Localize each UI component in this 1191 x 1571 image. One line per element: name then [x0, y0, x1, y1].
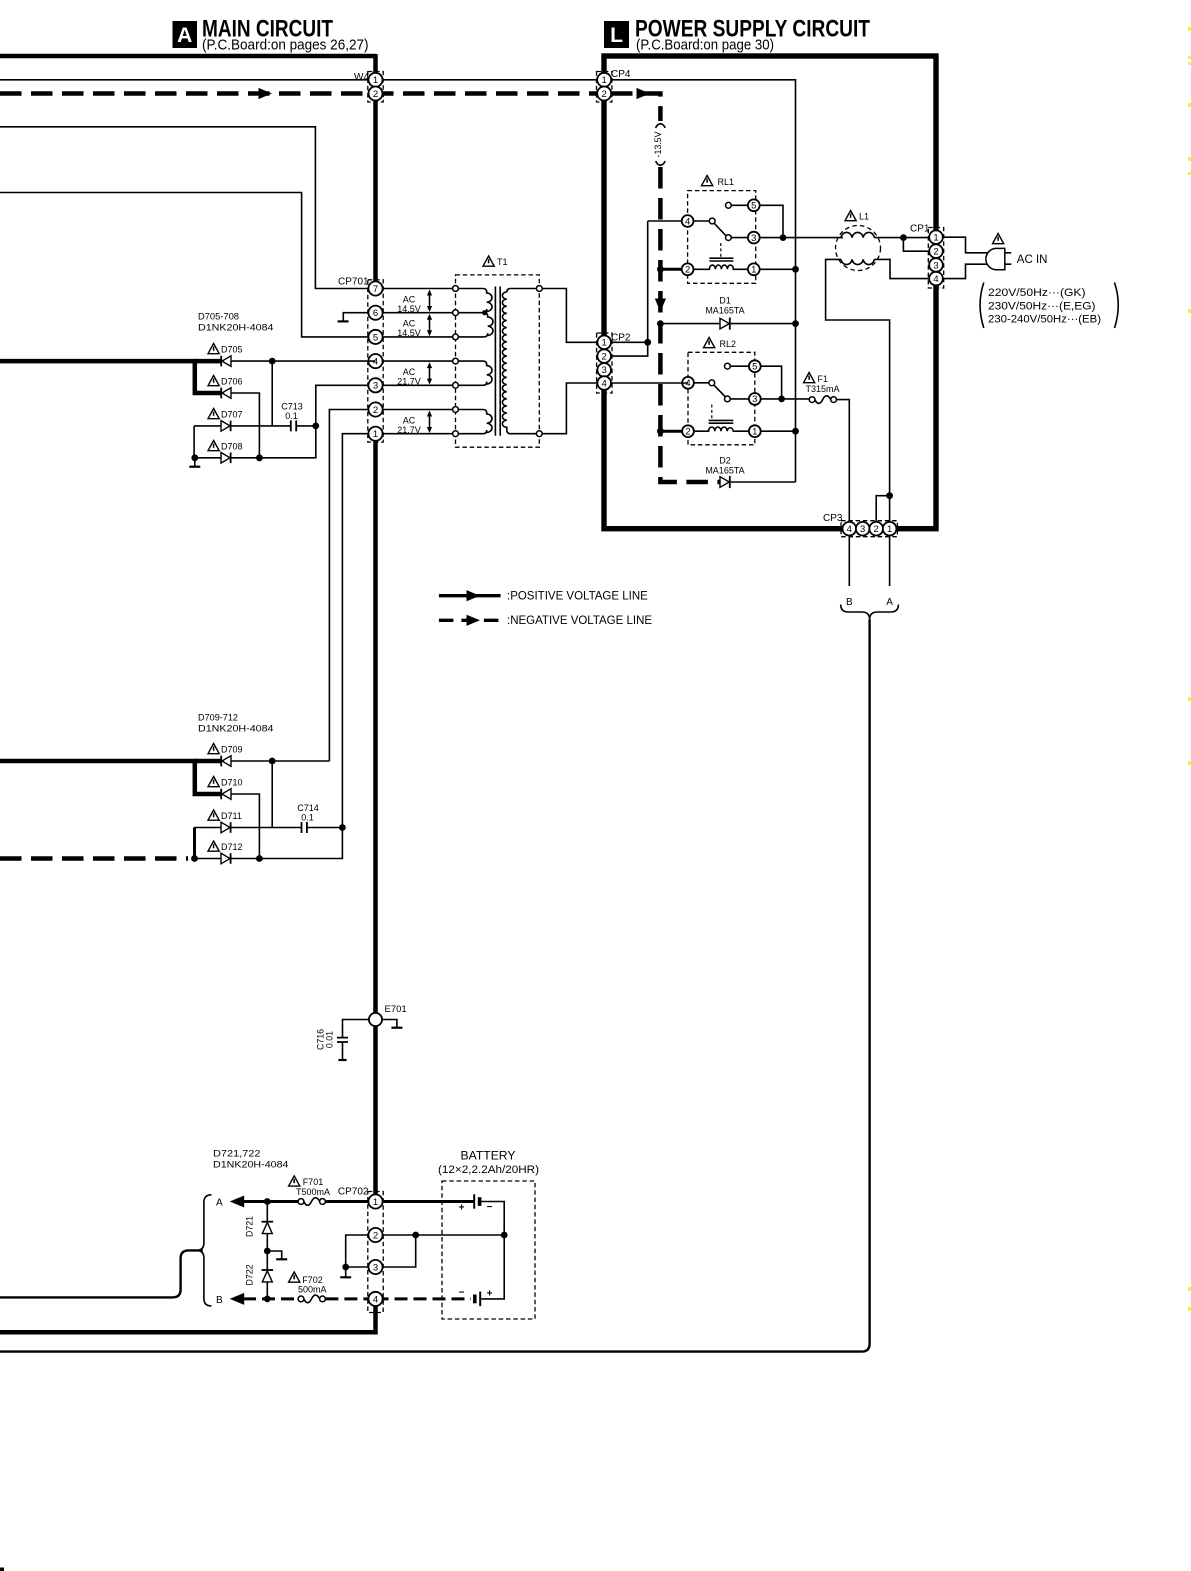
break chevron bottom of -13.5V gap — [656, 161, 665, 165]
wire thick feed D709/D710 — [0, 761, 221, 794]
connector RL2 pin 1 — [749, 425, 761, 437]
fuse F1 symbol — [809, 396, 836, 404]
svg-text:AC IN: AC IN — [1017, 254, 1048, 266]
contact circle RL2 common — [709, 380, 715, 386]
svg-text:2: 2 — [602, 351, 607, 362]
connector W4 pin 2 — [369, 87, 383, 101]
wire D711 row right to C714 — [231, 827, 302, 829]
svg-text:CP3: CP3 — [823, 513, 843, 524]
wire CP701-7 feed from left — [0, 127, 376, 289]
svg-text:RL2: RL2 — [720, 339, 737, 349]
svg-text:D1NK20H-4084: D1NK20H-4084 — [198, 724, 274, 735]
warning triangle T1 — [483, 256, 494, 266]
svg-text:1: 1 — [602, 75, 607, 86]
wire C714 right to node — [307, 827, 343, 829]
contact circle RL1 moving — [726, 235, 732, 241]
warning triangle D712 — [208, 841, 219, 851]
svg-text:T1: T1 — [497, 257, 508, 267]
wire RL2 pin4 to contact — [688, 382, 712, 384]
wire D707 row right to C713 — [231, 425, 291, 427]
svg-text:0.1: 0.1 — [301, 813, 314, 823]
underbrace A/B — [841, 605, 899, 620]
wire A node jog to CP3-2 — [876, 496, 889, 522]
relay RL1 coil — [688, 265, 754, 269]
svg-text:2: 2 — [874, 524, 879, 535]
svg-text:D708: D708 — [221, 442, 243, 452]
relay RL1 core bars — [709, 257, 733, 259]
ground at CP702 pin3 — [345, 1267, 347, 1277]
diode D710 — [221, 789, 231, 800]
wire D712 row left stub — [195, 858, 222, 860]
wire: thick bus vertical upper — [373, 54, 378, 281]
warning triangle D706 — [208, 376, 219, 386]
svg-text:−: − — [459, 1288, 465, 1299]
junction dot CP2 node — [644, 339, 651, 346]
wire D710 row — [231, 794, 260, 859]
junction dot D1 left — [657, 320, 664, 327]
junction dot D709 row — [269, 758, 276, 765]
wire RL1 pin4 to contact — [688, 220, 713, 222]
ground at D721/D722 mid — [267, 1251, 281, 1259]
svg-text:2: 2 — [685, 427, 690, 438]
wire L1 top right to CP1-1 — [874, 237, 929, 239]
legend negative arrow — [467, 615, 481, 626]
junction dot D1 right — [792, 320, 799, 327]
diode D706 — [221, 388, 231, 399]
svg-text:D2: D2 — [719, 456, 731, 466]
wire D711 row left — [194, 827, 221, 829]
connector CP701 pin 3 — [368, 378, 382, 392]
arrow gap3 — [427, 362, 432, 385]
ground bar at CP701-6 — [338, 320, 349, 322]
actuator dashed RL1 — [720, 243, 722, 257]
voltage note parens — [980, 283, 984, 329]
battery top cell plates — [474, 1194, 479, 1208]
svg-text:1: 1 — [751, 265, 756, 276]
wire: thick positive bus top — [0, 54, 376, 59]
wire D1 row — [660, 323, 795, 325]
warning triangle F702 — [289, 1272, 300, 1282]
svg-text:2: 2 — [933, 247, 938, 258]
ground bar E701 — [391, 1027, 402, 1029]
svg-text:T315mA: T315mA — [806, 384, 840, 394]
AC plug body — [986, 248, 1005, 269]
svg-text:D721,722: D721,722 — [213, 1149, 261, 1160]
diode D711 — [221, 822, 231, 833]
ground symbol D707/708 — [194, 458, 196, 467]
svg-text:D710: D710 — [221, 778, 243, 788]
svg-text:2: 2 — [602, 89, 607, 100]
svg-text:220V/50Hz···(GK): 220V/50Hz···(GK) — [988, 287, 1086, 299]
svg-text:2: 2 — [685, 265, 690, 276]
svg-text:(P.C.Board:on pages 26,27): (P.C.Board:on pages 26,27) — [202, 36, 369, 53]
svg-text:1: 1 — [602, 338, 607, 349]
L1 dashed circle — [836, 226, 881, 271]
wire: thick bus vertical middle — [373, 441, 378, 1013]
svg-text:D709-712: D709-712 — [198, 713, 238, 724]
T1 dashed box — [456, 275, 540, 447]
junction dot A row — [264, 1198, 271, 1205]
wire thick feed D705/D706 — [0, 361, 221, 393]
svg-text:AC: AC — [403, 416, 416, 426]
svg-text:A: A — [886, 597, 893, 608]
junction dot CP1 jumper — [900, 234, 907, 241]
svg-text:−: − — [487, 1202, 493, 1213]
warning triangle L1 — [845, 211, 856, 221]
wire D711 left down to negative node — [193, 828, 196, 858]
connector RL1 pin 1 — [748, 263, 760, 275]
legend positive arrow — [467, 590, 481, 601]
connector CP1 pin 2 — [929, 244, 943, 258]
warning triangle D707 — [208, 409, 219, 419]
warning triangle D711 — [208, 810, 219, 820]
svg-text:AC: AC — [403, 319, 416, 329]
svg-text:MA165TA: MA165TA — [705, 306, 744, 316]
diode D1 — [720, 318, 730, 330]
wire battery top to mid node — [481, 1202, 504, 1236]
connector CP2 pin 4 — [597, 376, 611, 390]
battery bottom cell plates — [475, 1292, 480, 1307]
wire CP702-2 row — [376, 1234, 505, 1236]
junction dot RL1 pin2 — [657, 266, 664, 273]
svg-text:5: 5 — [373, 332, 378, 343]
connector CP1 pin 4 — [929, 272, 943, 286]
wire C713 node down to D708 row — [231, 426, 316, 458]
svg-text:+: + — [459, 1203, 465, 1214]
legend negative line — [439, 619, 501, 622]
wire D722 vertical — [266, 1251, 268, 1299]
T1 terminal 3 — [453, 382, 459, 388]
wire CP701-5 feed from left — [0, 193, 376, 337]
arrow gap1 — [427, 290, 432, 313]
connector W4 pin 1 — [369, 73, 383, 87]
wire D707 row left — [194, 425, 221, 427]
wire: thick dashed negative line to CP4-2 — [0, 91, 604, 96]
svg-text:L1: L1 — [859, 212, 869, 222]
svg-text:230V/50Hz···(E,EG): 230V/50Hz···(E,EG) — [988, 300, 1096, 312]
L1 bottom winding — [841, 259, 874, 264]
svg-text:W4: W4 — [354, 72, 369, 83]
wire RL2 pin3 to fuse F1 — [755, 398, 809, 400]
junction dot D705 row — [269, 358, 276, 365]
diode D705 — [221, 356, 231, 367]
diode D708 — [221, 453, 231, 464]
brace line from left edge — [0, 1250, 203, 1297]
T1 tap dot — [482, 310, 487, 315]
wire thick dashed negative feed D711/712 — [0, 856, 188, 861]
connector RL1 pin 5 — [748, 199, 760, 211]
wire jumper down to CP1-2 — [903, 238, 929, 252]
svg-text:+: + — [487, 1289, 493, 1300]
svg-text:1: 1 — [373, 429, 378, 440]
wire F702 to CP702-4 dashed — [325, 1297, 375, 1300]
svg-text:D705: D705 — [221, 345, 243, 355]
connector CP701 pin 7 — [368, 281, 382, 295]
svg-text:D1: D1 — [719, 296, 731, 306]
wire CP701-2 down feed — [329, 410, 375, 762]
capacitor C716 — [337, 1038, 348, 1042]
svg-text:3: 3 — [860, 524, 865, 535]
connector CP4 pin 1 — [597, 73, 611, 87]
wire D721 vertical — [266, 1202, 268, 1252]
wire A row thick to F701 — [243, 1200, 298, 1203]
connector CP701 pin 4 — [368, 354, 382, 368]
T1 core — [495, 287, 500, 436]
contact circle RL1 common — [709, 218, 715, 224]
svg-text:L: L — [610, 24, 623, 47]
wire RL1 contact to pin3 — [728, 237, 753, 239]
svg-text:D709: D709 — [221, 745, 243, 755]
junction dot CP702 ground node — [342, 1264, 349, 1271]
svg-text:4: 4 — [373, 1294, 378, 1305]
yellow edge ticks — [1188, 27, 1191, 1311]
svg-text:0.1: 0.1 — [285, 411, 298, 421]
brace A/B fanout — [196, 1195, 211, 1306]
arrow gap4 — [427, 411, 432, 434]
connector CP701 dashed box — [368, 280, 383, 442]
warning triangle F701 — [289, 1176, 300, 1186]
wire: CP4-1 line right and down x=796 — [611, 80, 796, 482]
warning triangle AC — [993, 234, 1004, 244]
legend positive line — [439, 594, 501, 597]
capacitor C713 — [291, 420, 296, 431]
wire: thick dashed from CP4-2 to corner — [611, 94, 660, 122]
svg-text:1: 1 — [887, 524, 892, 535]
wire C714 node down to D712 row — [231, 828, 343, 859]
svg-text:230-240V/50Hz···(EB): 230-240V/50Hz···(EB) — [988, 314, 1101, 326]
contact circle RL2 upper — [725, 363, 731, 369]
svg-text:-13.5V: -13.5V — [653, 131, 663, 157]
svg-text:0.01: 0.01 — [325, 1031, 335, 1048]
svg-text:3: 3 — [373, 1262, 378, 1273]
svg-text:CP2: CP2 — [611, 333, 631, 344]
T1 secondary winding — [502, 289, 539, 434]
junction dot C713 node — [312, 423, 319, 430]
junction dot D712 row — [256, 855, 263, 862]
junction dot RL2 pin2 — [657, 428, 664, 435]
actuator dashed RL2 — [711, 405, 713, 419]
wire C716 bottom stub — [342, 1042, 344, 1060]
wire battery mid down to bottom cell — [481, 1235, 504, 1299]
wire CP702-4 to battery - dashed — [376, 1297, 472, 1300]
svg-text:3: 3 — [373, 381, 378, 392]
svg-text:F1: F1 — [818, 374, 829, 384]
badge L — [604, 21, 629, 48]
wire: A/B bundle bottom line — [0, 620, 870, 1352]
wire D707 left down to ground node — [193, 426, 195, 458]
T1 primary winding 2 — [456, 361, 492, 385]
connector CP3 dashed box — [841, 521, 897, 537]
diode D709 — [221, 756, 231, 767]
warning triangle F1 — [804, 373, 815, 383]
svg-text:3: 3 — [602, 365, 607, 376]
connector CP1 pin 3 — [929, 258, 943, 272]
wire CP1-4 to plug — [943, 264, 988, 278]
connector CP702 dashed box — [368, 1192, 383, 1313]
wire D709-row down to C714 — [271, 761, 273, 828]
svg-text:D722: D722 — [245, 1264, 255, 1285]
connector RL1 pin 4 — [682, 215, 694, 227]
wire RL1 pin3 to L1 — [754, 237, 843, 239]
svg-text:4: 4 — [933, 274, 938, 285]
L1 top winding — [841, 232, 874, 237]
wire B row dashed to F702 — [243, 1297, 298, 1300]
svg-text:C713: C713 — [281, 402, 303, 412]
wire T1 secondary top to CP2-1 — [542, 289, 597, 343]
warning triangle RL1 — [702, 176, 713, 186]
svg-text:B: B — [846, 597, 853, 608]
connector CP702 pin 4 — [368, 1292, 382, 1306]
svg-text:3: 3 — [751, 233, 756, 244]
wire RL2 pin5 to contact — [727, 365, 754, 367]
T1 secondary terminal bottom — [536, 431, 542, 437]
contact circle RL2 moving — [725, 396, 731, 402]
junction dot battery mid — [501, 1232, 508, 1239]
junction dot RL2 pin5/pin3 — [778, 396, 785, 403]
wire: thick dashed vertical -13.5V line — [660, 167, 720, 482]
svg-text:14.5V: 14.5V — [397, 328, 421, 338]
arrow down on -13.5V line — [655, 299, 666, 313]
connector CP3 pin 3 — [856, 522, 870, 536]
wire L1 bottom left down around to A node — [826, 259, 890, 495]
wire CP2-2 jog — [604, 342, 648, 356]
wire CP2-4 to RL2-4 — [604, 382, 688, 384]
warning triangle D705 — [208, 344, 219, 354]
wire CP701-6 ground — [343, 313, 375, 322]
svg-text:(12×2,2.2Ah/20HR): (12×2,2.2Ah/20HR) — [438, 1164, 539, 1176]
wire RL2 pin1 to vertical 795.5 — [755, 430, 796, 432]
diode D707 — [221, 421, 231, 432]
relay RL2 core bars — [709, 419, 734, 421]
svg-text:F702: F702 — [302, 1275, 323, 1285]
wire RL1 pin5 right down to pin3 wire — [754, 205, 783, 237]
svg-text:2: 2 — [373, 89, 378, 100]
svg-text:F701: F701 — [303, 1177, 324, 1187]
svg-text:D705-708: D705-708 — [198, 312, 239, 323]
junction dot B row — [264, 1296, 271, 1303]
warning triangle D709 — [208, 744, 219, 754]
wire CP701-1 down feed — [342, 434, 375, 828]
wire RL1 pin1 to vertical 795.5 — [754, 268, 796, 270]
wires CP701 to T1 terminals — [376, 289, 453, 434]
wire E701 right to ground — [376, 1020, 397, 1028]
svg-text:4: 4 — [373, 357, 378, 368]
wire T1 secondary bottom to CP2-4 — [542, 383, 597, 434]
arrow B left — [230, 1293, 245, 1305]
svg-text:21.7V: 21.7V — [397, 377, 421, 387]
svg-text:RL1: RL1 — [718, 177, 735, 187]
svg-text:CP701: CP701 — [338, 277, 369, 288]
svg-text:E701: E701 — [385, 1004, 407, 1015]
T1 terminal 7 — [453, 286, 459, 292]
corner mark bottom left — [0, 1568, 4, 1571]
connector RL2 pin 2 — [682, 425, 694, 437]
diode D721 — [262, 1222, 274, 1234]
junction dot negative node — [191, 855, 198, 862]
relay RL2 coil — [688, 427, 755, 431]
wire RL1 pin4 from CP2 node — [648, 220, 688, 222]
connector CP701 pin 5 — [368, 330, 382, 344]
junction dot RL1 pin5/pin3 — [780, 234, 787, 241]
wire D708 row left to ground — [195, 457, 221, 459]
connector CP701 pin 1 — [368, 427, 382, 441]
wire RL2 pin2 stub to -13.5V — [659, 430, 688, 433]
wire D2 thin right segment — [731, 481, 796, 483]
wire L1 bottom right to CP1-4 — [874, 259, 929, 278]
svg-text:5: 5 — [751, 201, 756, 212]
C716 end bar — [338, 1059, 346, 1061]
junction dot RL2 pin1 — [792, 428, 799, 435]
svg-text:(P.C.Board:on page 30): (P.C.Board:on page 30) — [636, 36, 774, 53]
T1 terminal 4 — [453, 358, 459, 364]
battery dashed box — [442, 1181, 535, 1319]
badge A — [173, 21, 198, 48]
diode D722 — [262, 1270, 274, 1282]
wire CP701-3 from C713 node — [316, 385, 376, 426]
wire E701 left to C716 — [343, 1020, 376, 1038]
svg-text:AC: AC — [403, 295, 416, 305]
junction dot ground node — [191, 454, 198, 461]
wire CP3-4 down B — [848, 536, 850, 587]
contact circle RL1 upper — [726, 202, 732, 208]
connector CP1 pin 1 — [929, 230, 943, 244]
connector CP2 pin 1 — [597, 336, 611, 350]
junction dot RL1 pin1 — [792, 266, 799, 273]
arrow on negative line — [259, 88, 273, 99]
T1 terminal 5 — [453, 334, 459, 340]
wire D705-row down to C713 — [271, 361, 273, 426]
AC plug prongs — [1005, 253, 1012, 264]
wire F701 to CP702-1 thick — [325, 1200, 375, 1203]
svg-text:B: B — [216, 1295, 223, 1306]
connector CP4 dashed box — [597, 72, 612, 103]
svg-text:C714: C714 — [297, 803, 319, 813]
wire RL2 contact to pin3 — [727, 398, 754, 400]
svg-text:1: 1 — [752, 427, 757, 438]
svg-text::NEGATIVE VOLTAGE LINE: :NEGATIVE VOLTAGE LINE — [507, 615, 652, 627]
svg-text:A: A — [177, 24, 192, 47]
arrow gap2 — [427, 314, 432, 337]
svg-text:MA165TA: MA165TA — [705, 466, 744, 476]
connector RL1 pin 3 — [748, 232, 760, 244]
connector W4 dashed box — [368, 72, 383, 103]
svg-text:4: 4 — [602, 378, 607, 389]
T1 primary winding 1 — [456, 289, 493, 337]
svg-text:2: 2 — [373, 405, 378, 416]
svg-text:D711: D711 — [221, 811, 242, 821]
svg-text:AC: AC — [403, 367, 416, 377]
power supply circuit border — [604, 56, 936, 529]
relay RL2 dashed box — [688, 352, 755, 445]
svg-text:BATTERY: BATTERY — [461, 1151, 516, 1163]
svg-text:4: 4 — [847, 524, 852, 535]
junction dot A node — [886, 492, 893, 499]
svg-text:1: 1 — [933, 233, 938, 244]
wire D709 row — [231, 760, 330, 762]
svg-text:14.5V: 14.5V — [397, 304, 421, 314]
svg-text:D706: D706 — [221, 377, 243, 387]
svg-text:D707: D707 — [221, 410, 243, 420]
connector CP701 pin 2 — [368, 402, 382, 416]
wire RL1 pin2 stub to -13.5V — [659, 268, 688, 271]
T1 terminal 6 — [453, 310, 459, 316]
svg-text:D1NK20H-4084: D1NK20H-4084 — [213, 1160, 289, 1171]
svg-text:500mA: 500mA — [298, 1284, 327, 1294]
wire RL1 pin5 to contact — [728, 204, 753, 206]
wire: thin W4-1 line to CP4-1 — [0, 79, 604, 81]
svg-text:D1NK20H-4084: D1NK20H-4084 — [198, 323, 274, 334]
wire D705 row — [231, 360, 376, 362]
